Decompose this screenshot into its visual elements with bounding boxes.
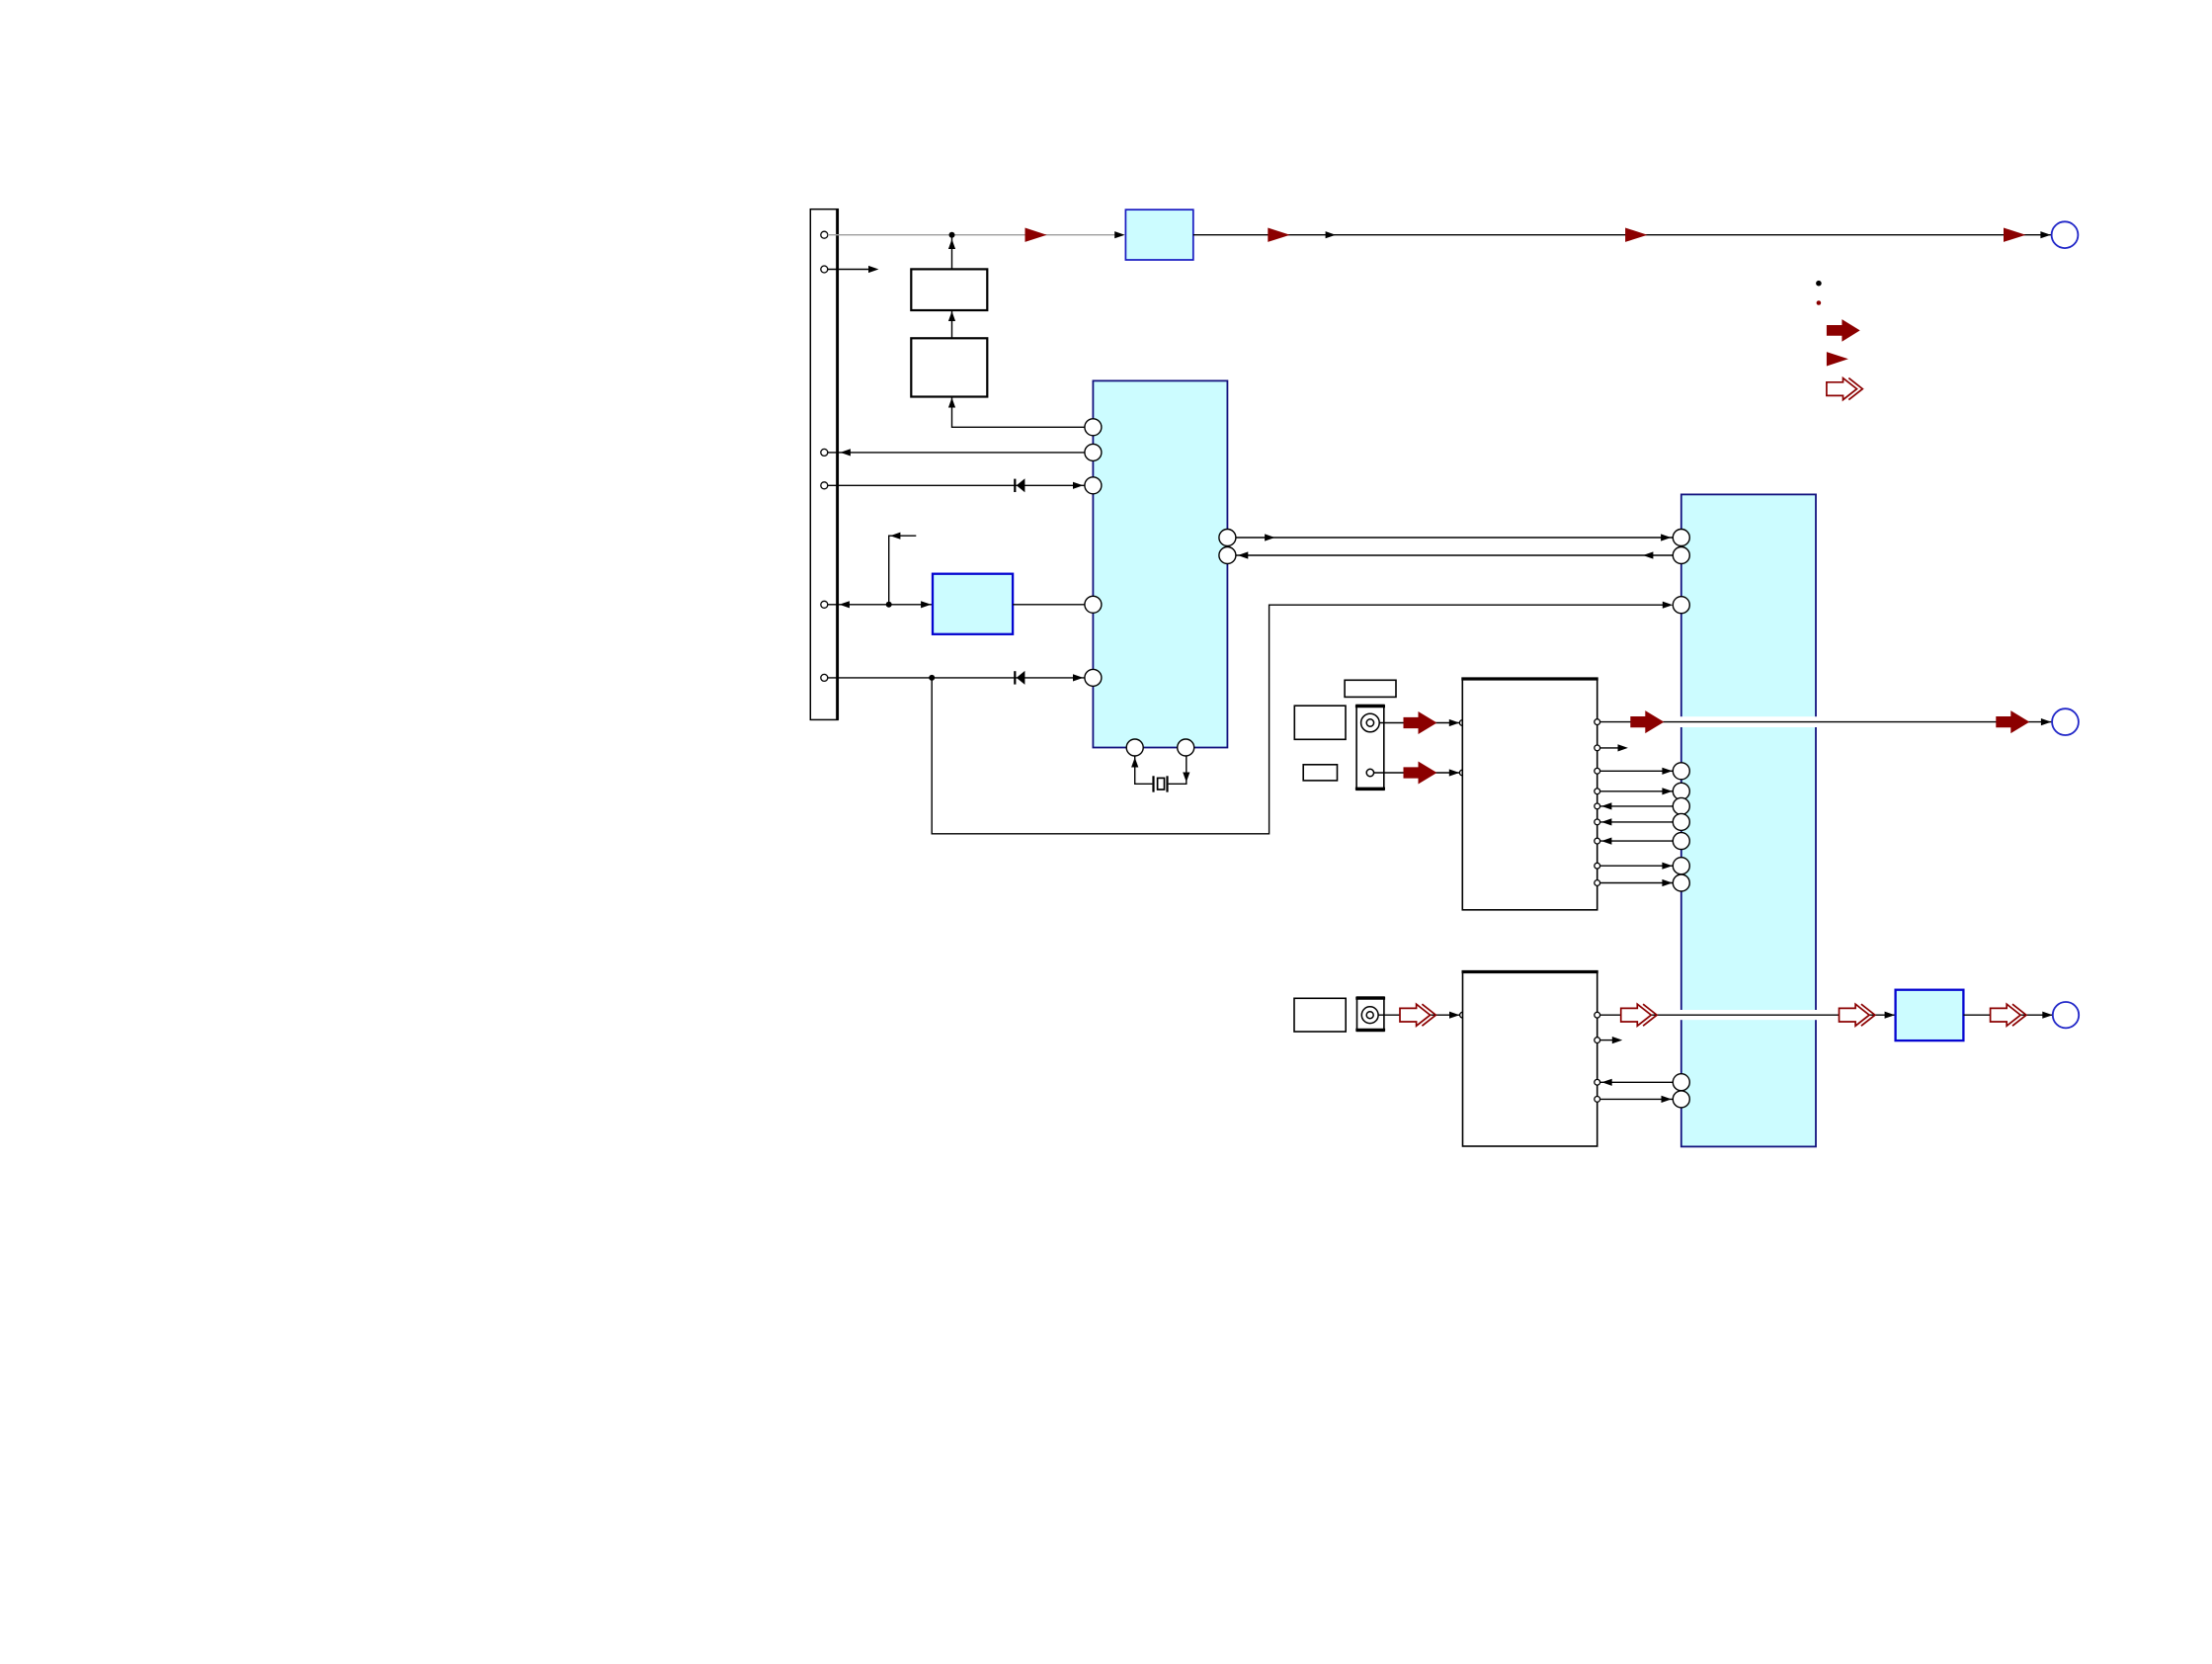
signal-flow triangle before T1 — [2004, 228, 2026, 242]
stub wire up from pin5 junction — [889, 536, 917, 605]
arrowhead into D1 out6 — [1601, 818, 1611, 825]
wire: B2 up to B1 — [951, 310, 953, 338]
wire: U2 port 8 to D1 out7 — [1600, 840, 1674, 842]
wire: U2 port 11 to D2 out3 — [1600, 1081, 1673, 1083]
wire: IC1 port to B2 bottom — [952, 397, 1085, 428]
D2 pin out3 — [1595, 1079, 1600, 1085]
fat arrow on J1 video wire — [1404, 711, 1437, 734]
D2 pin out4 — [1595, 1097, 1600, 1103]
arrowhead into D1 pin — [1449, 719, 1459, 726]
arrowhead into D2 pin — [1449, 1012, 1459, 1019]
signal-flow triangle on pin1 wire — [1025, 228, 1047, 242]
arrowhead into U2 port 12 — [1662, 1096, 1672, 1103]
U1 port e — [1085, 669, 1102, 686]
wire: U2 port 7 to D1 out6 — [1600, 821, 1674, 823]
D1 pin out8 — [1595, 863, 1600, 869]
label plate W2 left of jack J1 — [1294, 706, 1346, 739]
wire: D1 out1 through U2 to terminal T2 — [1600, 721, 2052, 723]
terminal T3 (audio output jack) — [2053, 1002, 2079, 1028]
D1 pin in2 — [1459, 770, 1465, 776]
diode D1 on pin4 wire — [1014, 478, 1024, 492]
junction on pin6 wire — [929, 675, 935, 681]
arrowhead on row 563.5 — [1238, 551, 1248, 558]
label plate W3 below-left of jack J1 — [1303, 765, 1337, 781]
D1 pin out7 — [1595, 838, 1600, 844]
wire stub from CN1 pin2 — [828, 269, 870, 271]
arrowhead into CN1 pin5 — [840, 601, 850, 608]
wire: U1 port b to CN1 pin3 — [828, 452, 1085, 454]
arrowhead on stub — [890, 533, 900, 540]
arrowhead up toward junction — [948, 239, 955, 249]
CN1 pin 6 — [821, 674, 828, 681]
junction on pin1 wire — [949, 232, 955, 238]
arrowhead into B1 bottom — [948, 311, 955, 321]
terminal T2 (video output jack) — [2052, 708, 2079, 735]
D2 pin in1 — [1460, 1012, 1466, 1018]
wire: CN1 pin5 to block C — [828, 604, 933, 606]
D1 pin out5 — [1595, 803, 1600, 809]
arrowhead into U2 port 10 — [1662, 879, 1672, 886]
block B1 (regulator, white) — [911, 269, 987, 310]
D1 pin out6 — [1595, 819, 1600, 825]
arrowhead into T1 — [2040, 231, 2050, 238]
U1 port i (bottom) — [1178, 739, 1194, 756]
terminal T1 (output jack) — [2052, 221, 2079, 248]
arrowhead into D1 pin 2 — [1449, 769, 1459, 776]
U1 port f (right) — [1219, 530, 1236, 546]
CN1 pin 5 — [821, 601, 828, 608]
label plate W4 left of jack J2 — [1294, 998, 1346, 1032]
D1 pin in1 — [1459, 720, 1465, 726]
D2 pin out2 — [1595, 1038, 1600, 1043]
open arrow after D2 out1 — [1621, 1004, 1657, 1026]
block F (audio amp, cyan) — [1896, 990, 1964, 1040]
wire: D1 out9 to U2 port 10 — [1600, 882, 1674, 884]
arrowhead on pin2 stub — [868, 266, 878, 273]
wire: J2 to D2 — [1378, 1014, 1459, 1016]
block C (reset, cyan) — [933, 574, 1013, 634]
wire: J1 audio to D1 — [1374, 772, 1460, 774]
wire: block A to terminal T1 — [1193, 234, 2052, 236]
wire: U2 port 6 to D1 out5 — [1600, 805, 1674, 807]
U2 port 7 — [1673, 813, 1689, 830]
white gap stripe through U2 (audio out line) — [1679, 1010, 1818, 1020]
legend: fat arrow sample — [1827, 319, 1860, 342]
IC block U1 (main processor, cyan) — [1093, 380, 1227, 747]
arrowhead into block F — [1885, 1012, 1895, 1019]
arrowhead into block C — [921, 601, 931, 608]
jack J2 (audio input connector) — [1355, 997, 1385, 1031]
diode D2 on pin6 wire — [1014, 671, 1024, 685]
wire: U2 to U1 port g (row 563.5) — [1236, 554, 1673, 556]
D1 pin out2 — [1595, 745, 1600, 751]
wire: D1 out3 to U2 port 4 — [1600, 770, 1674, 772]
arrowhead on D2 out2 stub — [1612, 1037, 1622, 1043]
fat arrow on J1 audio wire — [1404, 762, 1437, 785]
white gap stripe through U2 (video out line) — [1679, 716, 1818, 727]
short stub from D1 out2 — [1600, 747, 1619, 749]
wire: U1 port f to U2 (row 545) — [1236, 537, 1673, 539]
fat arrow before T2 — [1996, 710, 2029, 733]
D1 pin out9 — [1595, 880, 1600, 886]
U2 port 9 — [1673, 858, 1689, 874]
legend: red dot sample — [1817, 300, 1822, 305]
junction on pin5 wire — [886, 602, 892, 608]
arrowhead into D2 out3 — [1601, 1079, 1611, 1086]
U2 port 10 — [1673, 874, 1689, 891]
D1 pin out4 — [1595, 789, 1600, 794]
arrowhead into U2 port 5 — [1662, 788, 1672, 794]
wire: B1 up to pin1 net — [951, 235, 953, 270]
legend: open arrow sample — [1827, 378, 1862, 400]
U2 port 11 — [1673, 1074, 1689, 1091]
block A (line amp, cyan) — [1125, 209, 1192, 260]
open arrow before T3 — [1991, 1004, 2026, 1026]
wire: CN1 pin4 to U1 port c — [828, 484, 1085, 486]
block D1 (AV switch, white) — [1461, 679, 1598, 910]
signal-flow triangle mid wire — [1625, 228, 1648, 242]
arrowhead into U2 port (row 612) — [1663, 602, 1673, 609]
wire: CN1 pin1 to block A (gray segment) — [828, 234, 1117, 236]
arrowhead into T2 — [2041, 718, 2051, 725]
arrowhead into block A — [1114, 231, 1124, 238]
wire: block C to U1 port d — [1013, 604, 1085, 606]
U1 port b — [1085, 444, 1102, 460]
wire: D1 out8 to U2 port 9 — [1600, 865, 1674, 867]
small arrowhead on wire — [1326, 231, 1336, 238]
wire: pin6 junction down and around to U2 port — [932, 605, 1664, 834]
U2 port 1 — [1673, 530, 1689, 546]
wire: CN1 pin6 to U1 port e — [828, 677, 1085, 679]
legend: triangle sample — [1827, 352, 1848, 366]
U1 port h (bottom) — [1126, 739, 1143, 756]
arrowhead into T3 — [2042, 1012, 2052, 1019]
D1 pin out1 — [1595, 719, 1600, 725]
CN1 pin 1 — [821, 231, 828, 238]
U1 port c — [1085, 477, 1102, 494]
short stub from D2 out2 — [1600, 1040, 1613, 1041]
arrowhead into U1 port c — [1073, 482, 1083, 489]
U2 port 6 — [1673, 797, 1689, 814]
arrowhead into CN1 pin3 — [841, 449, 851, 456]
crystal X1 under U1 — [1131, 756, 1189, 791]
fat arrow after D1 out1 — [1630, 710, 1664, 733]
wire: D2 out1 through U2 to block F — [1600, 1014, 1895, 1016]
open arrow on J2 wire — [1400, 1004, 1435, 1026]
wire: D1 out4 to U2 port 5 — [1600, 790, 1674, 792]
D1 pin out3 — [1595, 768, 1600, 774]
legend: junction dot sample — [1816, 281, 1822, 287]
arrowhead into D1 out7 — [1601, 838, 1611, 845]
D2 pin out1 — [1595, 1012, 1600, 1018]
connector CN1 (input terminal strip) — [810, 208, 838, 720]
wire: block F to terminal T3 — [1963, 1014, 2053, 1016]
U2 port 2 — [1673, 547, 1689, 564]
U2 port 4 — [1673, 763, 1689, 780]
U2 port 8 — [1673, 833, 1689, 850]
signal-flow triangle after block A — [1268, 228, 1290, 242]
label plate W1 above jack J1 — [1345, 680, 1396, 697]
CN1 pin 2 — [821, 266, 828, 273]
CN1 pin 3 — [821, 449, 828, 456]
CN1 pin 4 — [821, 482, 828, 489]
arrowhead on row 545 — [1265, 534, 1274, 541]
U2 port 5 — [1673, 783, 1689, 799]
U2 port 3 — [1673, 597, 1689, 614]
open arrow after U2 (audio) — [1840, 1004, 1875, 1026]
arrowhead into B2 bottom — [948, 398, 955, 408]
arrowhead into D1 out5 — [1601, 802, 1611, 809]
wire: D2 out4 to U2 port 12 — [1600, 1098, 1673, 1100]
arrowhead on D1 out2 stub — [1618, 744, 1628, 751]
IC block U2 (jungle / video processor, cyan) — [1681, 494, 1816, 1146]
U1 port d — [1085, 596, 1102, 613]
block B2 (regulator, white) — [911, 338, 987, 396]
arrowhead into U1 port e — [1073, 674, 1083, 681]
jack J1 (video input connector) — [1355, 706, 1385, 790]
wire: J1 video to D1 — [1379, 722, 1459, 724]
U1 port g (right) — [1219, 547, 1236, 564]
arrowhead into U2 port 4 — [1662, 768, 1672, 775]
arrowhead into U2 port 9 — [1662, 863, 1672, 870]
U2 port 12 — [1673, 1091, 1689, 1108]
U1 port a — [1085, 419, 1102, 436]
block D2 (audio switch, white) — [1462, 972, 1598, 1147]
